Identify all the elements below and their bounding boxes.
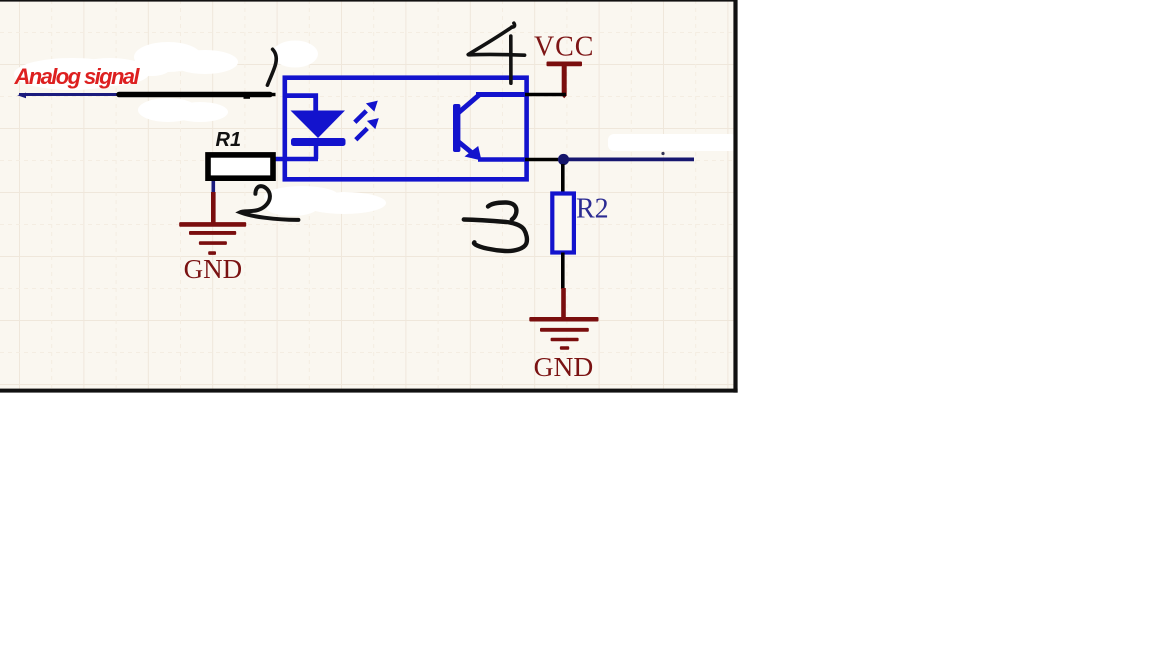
ground GND left symbol	[179, 192, 246, 255]
wire: pin4 (collector) to VCC	[525, 93, 566, 97]
white-out blob upper left	[132, 42, 238, 76]
svg-text:Analog signal: Analog signal	[14, 64, 141, 89]
wire remnant dot on output	[661, 152, 664, 155]
sheet border bottom	[0, 389, 738, 393]
junction node: output net	[558, 154, 569, 165]
sheet border top	[0, 0, 737, 2]
white-out blob right of handwritten 2	[264, 186, 386, 216]
wire: output net to the right (navy)	[568, 158, 694, 162]
wire: analog input net (navy)	[19, 93, 276, 96]
optocoupler U1 body	[285, 78, 527, 180]
ground GND right symbol	[529, 288, 598, 350]
pin number 4 (handwritten)	[468, 23, 524, 83]
pin number 1 (handwritten)	[267, 49, 276, 85]
white-out blob above optocoupler corner	[272, 41, 318, 68]
wire: hand-drawn black overlay on input wire	[119, 92, 270, 98]
wire: node down to R2	[561, 164, 565, 193]
wire: R1 bottom stub (navy)	[212, 181, 216, 193]
svg-text:VCC: VCC	[534, 32, 594, 63]
optocoupler U1 LED anode wire (pin1 inner)	[284, 96, 316, 112]
optocoupler U1 LED triangle	[291, 111, 346, 139]
pin number 3 (handwritten)	[464, 202, 527, 251]
optocoupler U1 phototransistor emitter	[458, 141, 526, 161]
svg-text:GND: GND	[184, 254, 243, 284]
optocoupler U1 phototransistor base bar	[453, 104, 460, 152]
white-out blob right of output node	[608, 134, 737, 151]
svg-text:GND: GND	[534, 351, 594, 382]
wire: pin3 (emitter) to output node	[525, 158, 558, 162]
optocoupler U1 phototransistor collector	[458, 95, 526, 114]
optocoupler U1 light arrow upper	[355, 101, 378, 123]
optocoupler U1 LED cathode bar	[291, 138, 346, 146]
svg-text:R1: R1	[216, 129, 242, 151]
white-out blob below input wire	[138, 98, 228, 122]
resistor R2	[552, 194, 574, 253]
white-out blob under "Analog signal" text	[14, 58, 150, 90]
pin number 2 (handwritten)	[240, 186, 298, 220]
power VCC symbol	[547, 62, 583, 99]
resistor R1	[208, 155, 273, 178]
optocoupler U1 LED cathode wire (pin2 inner)	[275, 146, 318, 159]
schematic sheet background	[0, 0, 737, 392]
svg-text:R2: R2	[576, 194, 609, 225]
wire: R2 bottom to ground	[561, 253, 565, 290]
optocoupler U1 light arrow lower	[356, 118, 379, 140]
sheet border right	[733, 0, 737, 393]
